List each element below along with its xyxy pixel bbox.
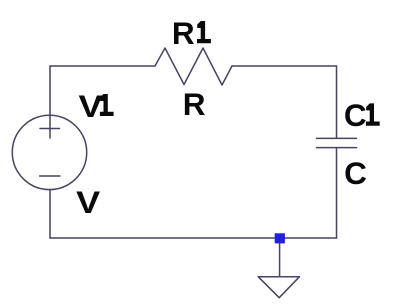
wire right vertical lower: [336, 148, 338, 238]
ground: [258, 243, 299, 297]
resistor R1: [155, 48, 232, 85]
svg-text:V: V: [79, 88, 103, 124]
wire top left segment: [50, 65, 155, 67]
wire top right segment: [232, 65, 337, 67]
svg-text:C: C: [344, 155, 367, 191]
svg-text:R: R: [183, 86, 206, 122]
svg-text:C: C: [344, 97, 367, 133]
capacitor C1: [317, 138, 357, 147]
svg-text:V: V: [76, 184, 100, 220]
wire right vertical upper: [336, 66, 338, 138]
wire bottom: [50, 237, 337, 239]
voltage source V1: [12, 115, 86, 189]
junction node: [275, 233, 285, 243]
svg-text:R: R: [172, 15, 195, 51]
label V1: [79, 88, 114, 124]
label R1: [172, 15, 211, 51]
wire left vertical upper with plus lead: [49, 66, 51, 138]
wire left vertical lower: [49, 189, 51, 238]
label C1: [344, 97, 380, 133]
